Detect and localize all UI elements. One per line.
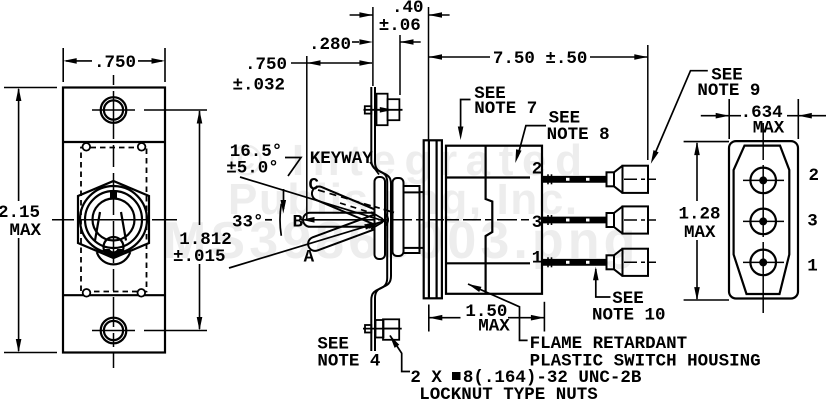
svg-text:3: 3 xyxy=(807,212,818,232)
svg-text:2: 2 xyxy=(532,160,543,180)
svg-text:±.06: ±.06 xyxy=(379,16,421,36)
svg-text:C: C xyxy=(309,176,320,196)
svg-text:MAX: MAX xyxy=(753,119,785,139)
svg-text:A: A xyxy=(304,247,315,267)
svg-text:1.28: 1.28 xyxy=(679,205,721,225)
svg-text:NOTE 4: NOTE 4 xyxy=(317,352,380,372)
svg-text:MAX: MAX xyxy=(10,221,42,241)
svg-text:.750: .750 xyxy=(94,53,136,73)
svg-text:1: 1 xyxy=(807,256,818,276)
svg-text:NOTE 7: NOTE 7 xyxy=(474,99,537,119)
svg-text:KEYWAY: KEYWAY xyxy=(310,149,374,169)
svg-text:NOTE 10: NOTE 10 xyxy=(592,306,666,326)
svg-text:NOTE 9: NOTE 9 xyxy=(697,81,760,101)
svg-text:LOCKNUT TYPE NUTS: LOCKNUT TYPE NUTS xyxy=(419,385,598,405)
svg-text:.750: .750 xyxy=(245,55,287,75)
svg-text:NOTE 8: NOTE 8 xyxy=(547,125,610,145)
svg-text:±.032: ±.032 xyxy=(233,76,286,96)
svg-text:7.50 ±.50: 7.50 ±.50 xyxy=(493,49,588,69)
svg-text:33°: 33° xyxy=(232,213,264,233)
svg-text:.280: .280 xyxy=(309,35,351,55)
svg-text:B: B xyxy=(293,213,304,233)
svg-text:3: 3 xyxy=(532,213,543,233)
svg-text:2: 2 xyxy=(809,166,820,186)
svg-text:MAX: MAX xyxy=(684,223,716,243)
svg-text:±5.0°: ±5.0° xyxy=(226,159,279,179)
svg-text:2.15: 2.15 xyxy=(0,203,40,223)
svg-text:1: 1 xyxy=(532,249,543,269)
svg-text:±.015: ±.015 xyxy=(173,247,226,267)
svg-text:MAX: MAX xyxy=(478,317,510,337)
